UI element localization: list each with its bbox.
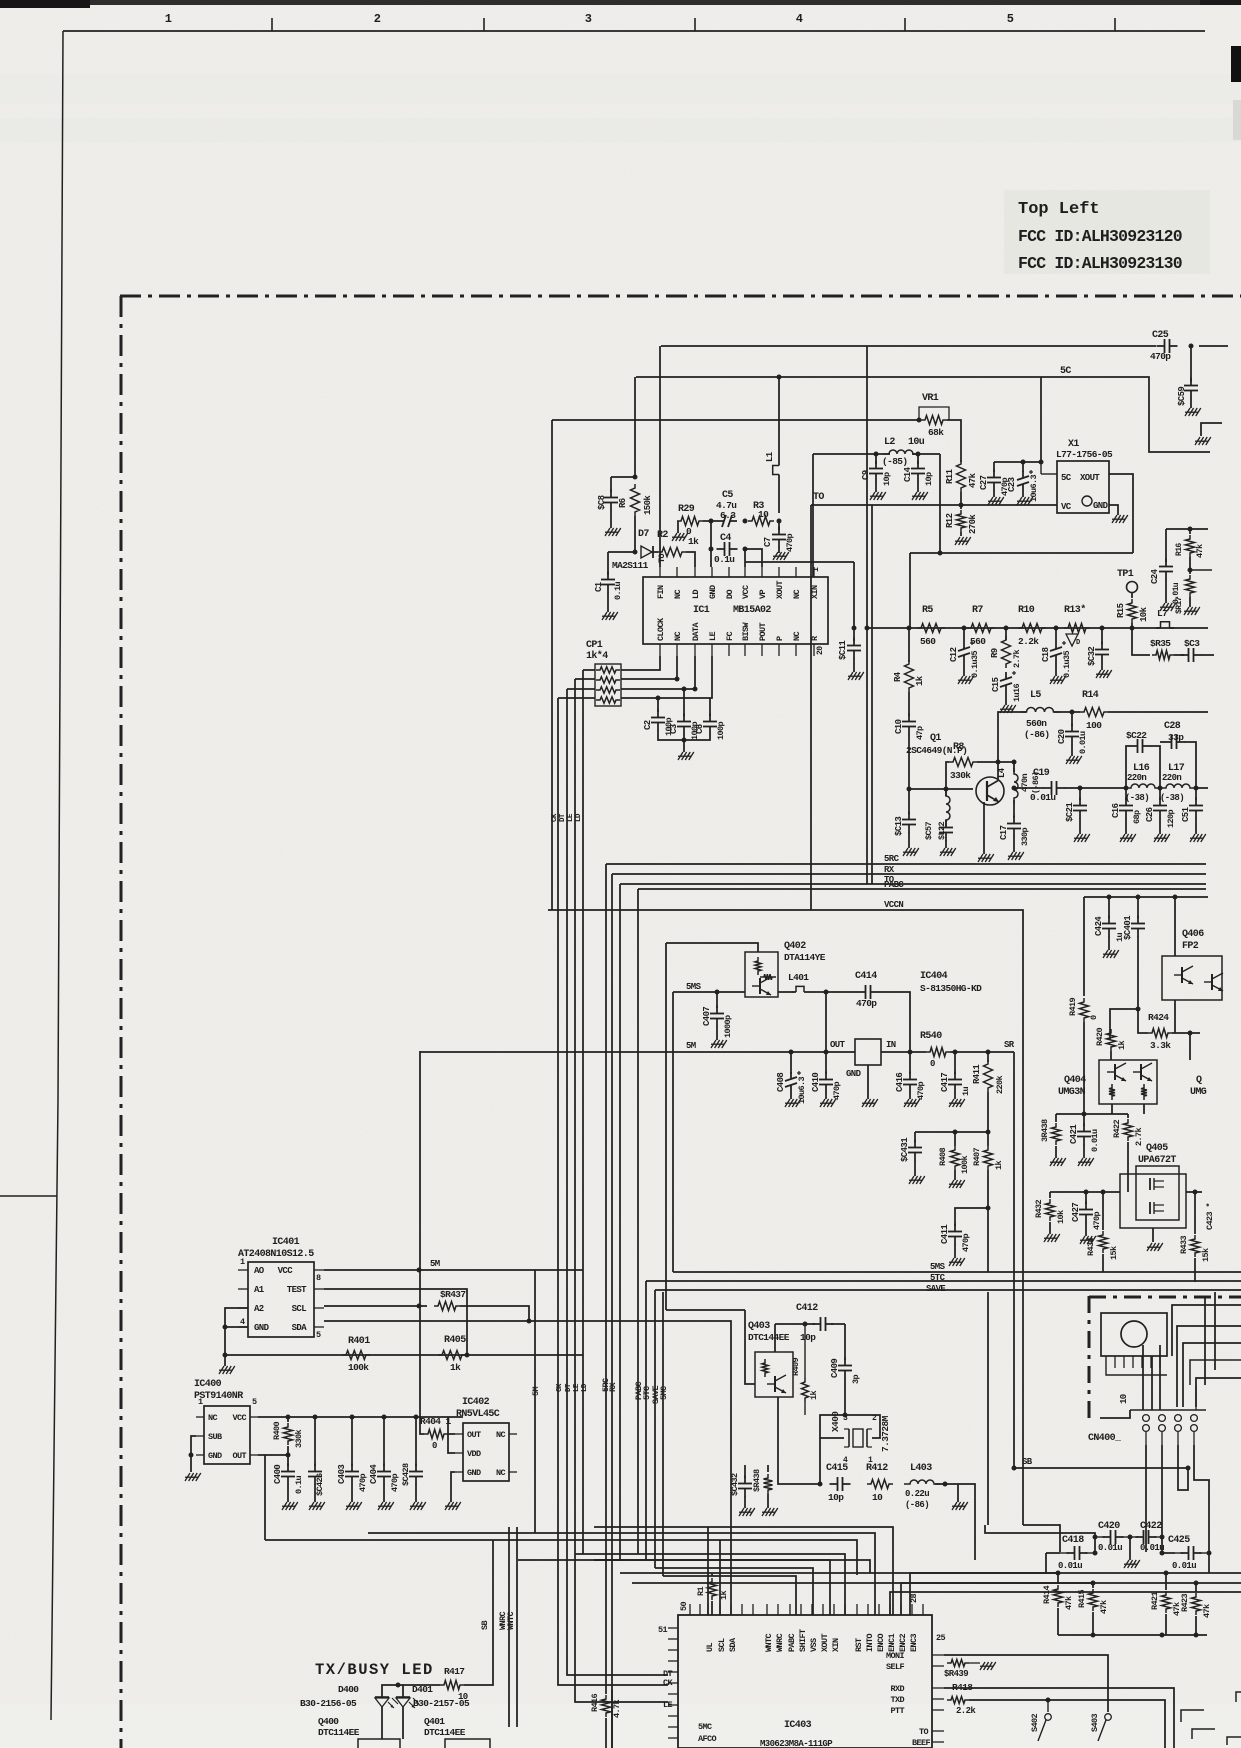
Q403 transistor (774, 1376, 776, 1392)
resistor R423 (1195, 1583, 1197, 1592)
svg-text:NC: NC (673, 589, 683, 599)
svg-text:470p: 470p (1150, 351, 1171, 362)
junction C5 right (743, 519, 748, 524)
svg-text:DTC114EE: DTC114EE (424, 1727, 466, 1738)
ground C424 (1108, 936, 1110, 950)
wire Q406 in (1174, 897, 1176, 956)
svg-text:10: 10 (1119, 1394, 1129, 1404)
regulator IC404 box (855, 1039, 881, 1065)
svg-text:C7: C7 (763, 537, 773, 547)
inductor L403 (904, 1480, 940, 1484)
svg-text:2: 2 (374, 12, 381, 26)
wire R423 down (1195, 1616, 1197, 1635)
svg-text:R405: R405 (444, 1335, 466, 1346)
junction R3 right (777, 519, 782, 524)
svg-text:DO: DO (725, 589, 735, 599)
capacitor C1 (607, 572, 609, 580)
svg-text:C28: C28 (1164, 721, 1181, 732)
ground C404 (383, 1484, 385, 1502)
resistor R407 (987, 1132, 989, 1146)
bus 5RC (606, 863, 1206, 865)
wire R424 left (1138, 1022, 1148, 1033)
svg-text:560n: 560n (1026, 718, 1047, 729)
wire R35 branch (1132, 628, 1150, 655)
capacitor C22 (1126, 746, 1130, 788)
svg-text:C4: C4 (720, 533, 731, 544)
svg-text:UMG3N: UMG3N (1058, 1087, 1086, 1098)
junction IC400 gnd (189, 1453, 194, 1458)
transistor block Q404 (1099, 1060, 1157, 1104)
resistor R29 (677, 517, 703, 526)
svg-text:0.01u: 0.01u (1058, 1561, 1082, 1571)
junction L403 (943, 1482, 948, 1487)
capacitor C2 (657, 710, 659, 718)
wire C8 branch (611, 476, 635, 478)
wire enc steps3 (890, 1592, 1241, 1615)
svg-text:AO: AO (254, 1266, 265, 1276)
svg-text:IN: IN (886, 1040, 896, 1050)
wire q406 to r420 (1110, 1009, 1138, 1040)
svg-text:FIN: FIN (656, 585, 666, 599)
ground C417 (954, 1092, 956, 1099)
svg-text:S402: S402 (1030, 1713, 1040, 1732)
wire GND pin (225, 1326, 248, 1328)
IC1 pin R (813, 644, 815, 656)
junction 1192 c (1193, 1190, 1198, 1195)
junction bottom rail (223, 1353, 228, 1358)
ground C9 (875, 481, 877, 492)
capacitor C421 (1083, 1114, 1085, 1126)
svg-text:5C: 5C (1061, 473, 1072, 483)
wire R415 down (1092, 1612, 1094, 1635)
capacitor C432 (744, 1465, 746, 1478)
svg-text:BEEF: BEEF (912, 1738, 931, 1748)
test point TP1 (1127, 582, 1138, 593)
ground C420 (1124, 1560, 1129, 1568)
junction L22 (944, 787, 949, 792)
wire R1 down (711, 1601, 713, 1615)
CN400 pin 3b (1175, 1425, 1182, 1432)
svg-text:NC: NC (792, 631, 802, 641)
svg-text:FCC ID:ALH30923130: FCC ID:ALH30923130 (1018, 254, 1182, 273)
ground R438b (767, 1494, 769, 1508)
svg-text:1: 1 (240, 1257, 245, 1267)
junction rail left (865, 626, 870, 631)
svg-text:R424: R424 (1148, 1012, 1169, 1023)
svg-text:NC: NC (208, 1413, 218, 1423)
junction X400 top (843, 1413, 848, 1418)
resistor R405 (438, 1351, 466, 1360)
wire R8 right (977, 761, 1014, 763)
svg-text:(-85): (-85) (882, 456, 908, 467)
wire R434 down (1102, 1254, 1104, 1272)
capacitor C415 (830, 1483, 838, 1485)
svg-text:LE: LE (573, 1383, 581, 1392)
junction c420 left (1093, 1535, 1098, 1540)
wire c418 drop (1094, 1537, 1096, 1553)
svg-text:SR: SR (1004, 1040, 1015, 1050)
wire weave g (1151, 1356, 1153, 1410)
svg-text:0.1u: 0.1u (294, 1475, 304, 1494)
Q402 resistor (755, 957, 761, 975)
svg-text:INTO: INTO (865, 1633, 875, 1652)
ruler tick (904, 18, 906, 31)
bus CK (558, 698, 668, 1685)
IC403 pin SDA (730, 1604, 732, 1615)
wire R422 down (1127, 1142, 1129, 1192)
svg-text:C1: C1 (594, 581, 604, 592)
junction rail C404 (382, 1415, 387, 1420)
wire L2 rail (813, 453, 890, 455)
junction R437 (527, 1319, 532, 1324)
junction R6 C8 (633, 475, 638, 480)
CP1 resistor 4 (596, 697, 620, 703)
wire SCL (324, 1305, 427, 1307)
svg-text:5MC: 5MC (698, 1722, 712, 1732)
capacitor C428 (415, 1417, 417, 1466)
Q404 transistor b (1140, 1064, 1142, 1080)
wire C28 right (1184, 742, 1196, 788)
wire cn drop d (1194, 1445, 1209, 1552)
eeprom IC401 box (248, 1262, 314, 1337)
wire Q1 emitter (983, 802, 985, 854)
svg-text:A1: A1 (254, 1285, 265, 1295)
svg-text:0.01u: 0.01u (1098, 1543, 1122, 1553)
svg-text:Q401: Q401 (424, 1716, 445, 1727)
ground C59 (1190, 398, 1192, 408)
wire 5C rail (636, 377, 1210, 452)
Q406 transistor a (1181, 967, 1183, 983)
svg-text:TX/BUSY LED: TX/BUSY LED (315, 1661, 434, 1679)
svg-text:CK: CK (663, 1678, 674, 1688)
capacitor C12 (963, 642, 965, 649)
wire drop scl (719, 1540, 721, 1615)
Q405 fet a (1149, 1178, 1151, 1190)
ground R17 (1189, 597, 1191, 607)
ground C23 (1022, 491, 1024, 497)
wire CP1 lead 1 (583, 669, 595, 671)
svg-text:8: 8 (316, 1273, 321, 1283)
junction LE (693, 687, 698, 692)
wire Q404 out left (1111, 1104, 1113, 1114)
wire weave a (1172, 1305, 1241, 1356)
svg-text:R2: R2 (657, 530, 668, 541)
svg-text:RXD: RXD (890, 1684, 904, 1694)
svg-text:IC401: IC401 (272, 1237, 300, 1248)
junction IN (908, 1050, 913, 1055)
scan band 1 (0, 74, 1241, 104)
junction rail C400 (286, 1415, 291, 1420)
junction X1 top (1039, 460, 1044, 465)
svg-text:10: 10 (872, 1492, 883, 1503)
IC1 pin FC (728, 644, 730, 656)
svg-text:1: 1 (198, 1397, 203, 1407)
wire R404 to OUT (448, 1433, 455, 1435)
capacitor C17 (1013, 800, 1015, 818)
svg-text:330k: 330k (294, 1429, 304, 1448)
svg-text:GND: GND (846, 1069, 862, 1079)
svg-text:(-86): (-86) (905, 1500, 929, 1510)
svg-text:NC: NC (792, 589, 802, 599)
svg-text:1k*4: 1k*4 (586, 650, 608, 662)
svg-text:D: D (1076, 639, 1080, 647)
svg-text:GND: GND (208, 1451, 222, 1461)
mcu IC403 box (678, 1615, 932, 1748)
junction C4 right (743, 547, 748, 552)
inductor L2 (883, 450, 919, 454)
svg-text:S403: S403 (1090, 1713, 1100, 1732)
svg-text:0: 0 (1089, 1015, 1099, 1020)
svg-text:R8: R8 (953, 742, 964, 753)
IC403 pin stub (844, 1604, 846, 1615)
svg-text:5C: 5C (1060, 366, 1071, 377)
svg-text:OUT: OUT (467, 1430, 481, 1440)
CN400 pin 1a (1143, 1415, 1150, 1422)
svg-text:IC400: IC400 (194, 1379, 222, 1390)
svg-text:$C428: $C428 (401, 1463, 411, 1486)
wire R421 down (1165, 1614, 1167, 1635)
svg-text:WNRC: WNRC (775, 1633, 785, 1652)
wire XIN feed (812, 454, 814, 577)
wire R424 drop (1189, 1033, 1191, 1060)
bus TO (620, 883, 1206, 885)
resistor R420 (1107, 1029, 1116, 1051)
wire q402 frame (666, 943, 758, 952)
svg-text:47k: 47k (968, 472, 978, 488)
IC1 pin NC (795, 567, 797, 577)
svg-text:LD: LD (575, 813, 583, 822)
junction 1114 (1082, 1112, 1087, 1117)
wire R417 right (464, 1540, 493, 1685)
junction C25 (1189, 344, 1194, 349)
capacitor C18 (1055, 642, 1057, 649)
svg-text:LE: LE (663, 1700, 673, 1710)
svg-text:10u6.3: 10u6.3 (1029, 474, 1039, 502)
svg-text:SB: SB (1022, 1457, 1033, 1467)
svg-text:10: 10 (758, 509, 769, 520)
svg-text:L5: L5 (1030, 690, 1041, 701)
wire 1573 full (620, 1572, 1058, 1574)
junction SB (1012, 1466, 1017, 1471)
svg-text:$C59: $C59 (1177, 387, 1187, 406)
wire 5M rail (420, 1051, 855, 1053)
ground C432 (744, 1496, 746, 1508)
wire R414 down (1057, 1608, 1059, 1635)
svg-text:0.1u35: 0.1u35 (1062, 650, 1072, 678)
left margin line (51, 31, 63, 1720)
wire q402 frame drop (665, 943, 667, 1310)
ground L403 (952, 1502, 957, 1510)
svg-text:0.01u: 0.01u (1078, 731, 1088, 754)
resistor R16 (1189, 529, 1191, 534)
svg-text:RN5VL45C: RN5VL45C (456, 1409, 500, 1420)
svg-text:51: 51 (658, 1625, 668, 1635)
wire weave row 1535 (535, 1533, 875, 1615)
svg-text:1k: 1k (809, 1390, 819, 1400)
IC1 pin NC (676, 567, 678, 577)
svg-text:10u: 10u (908, 437, 925, 448)
svg-text:LE: LE (708, 631, 718, 641)
capacitor C59 (1190, 378, 1192, 386)
junction S402 top (1046, 1698, 1051, 1703)
wire c418 left (1046, 1552, 1060, 1554)
svg-text:6.3: 6.3 (720, 510, 736, 521)
capacitor C20 (1071, 712, 1073, 726)
wire R407 down (987, 1170, 989, 1272)
svg-text:R408: R408 (938, 1147, 948, 1166)
svg-text:(-86): (-86) (1024, 729, 1050, 740)
svg-text:M30623M8A-111GP: M30623M8A-111GP (760, 1739, 833, 1748)
wire R11 down (960, 492, 962, 505)
left margin tick (0, 1195, 57, 1197)
svg-text:3: 3 (585, 12, 592, 26)
svg-text:R415: R415 (1077, 1589, 1087, 1608)
wire PTT right (969, 1700, 1165, 1748)
capacitor C426 (314, 1417, 316, 1466)
junction R16 R17 (1188, 568, 1193, 573)
wire L5 to R14 (1054, 711, 1080, 713)
svg-text:5MS: 5MS (930, 1262, 946, 1272)
wire weave h (1159, 1345, 1161, 1410)
svg-text:SDA: SDA (728, 1637, 738, 1652)
svg-text:470p: 470p (832, 1081, 842, 1100)
wire sr feed (958, 1484, 975, 1560)
capacitor C51 (1195, 788, 1197, 800)
svg-text:R29: R29 (678, 504, 695, 515)
ground C13 (908, 832, 910, 848)
wire GND pin vert (710, 521, 712, 567)
wire Q403 base left (745, 1310, 755, 1384)
ground C427 (1085, 1222, 1087, 1236)
wire VDD (448, 1417, 455, 1453)
junction c420 right (1128, 1535, 1133, 1540)
svg-text:R12: R12 (945, 513, 955, 528)
junction rail C428 (414, 1415, 419, 1420)
svg-text:XOUT: XOUT (775, 580, 785, 599)
resistor R415 (1092, 1583, 1094, 1588)
ground C428 (415, 1484, 417, 1502)
IC403 pin SHIFT (800, 1604, 802, 1615)
capacitor C3 (683, 689, 685, 716)
capacitor C407 (716, 992, 718, 1008)
wire weave b (1177, 1326, 1241, 1407)
ground C11 (853, 658, 855, 672)
wire cn stub left (1100, 1410, 1130, 1418)
wire base rail (909, 788, 973, 790)
svg-text:5M: 5M (531, 1386, 541, 1396)
svg-text:SHIFT: SHIFT (798, 1629, 808, 1652)
svg-text:0: 0 (686, 526, 692, 537)
wire R29 to C5 (703, 520, 717, 522)
svg-text:7.3728M: 7.3728M (880, 1415, 891, 1452)
svg-text:CK: CK (551, 813, 559, 822)
IC403 left pin stub (668, 1715, 678, 1717)
wire wnrc v (508, 1527, 510, 1727)
junction R9 (1004, 626, 1009, 631)
svg-text:$C426: $C426 (315, 1473, 325, 1496)
wire R411 down (987, 1092, 989, 1132)
resistor R401 (342, 1351, 370, 1360)
svg-text:C20: C20 (1057, 729, 1067, 744)
svg-text:5M: 5M (430, 1259, 440, 1269)
wire VCCN (548, 910, 1023, 1525)
svg-text:0: 0 (930, 1059, 935, 1069)
svg-text:1u16: 1u16 (1012, 683, 1022, 702)
svg-text:220n: 220n (1162, 773, 1181, 783)
CN400 pin 2b (1159, 1425, 1166, 1432)
capacitor C9 (875, 454, 877, 464)
ground C426 (314, 1484, 316, 1502)
svg-text:C27: C27 (979, 475, 989, 490)
svg-text:LE: LE (567, 813, 575, 822)
svg-text:Q1: Q1 (930, 733, 941, 744)
wire weave c (1183, 1343, 1241, 1407)
svg-text:270k: 270k (968, 514, 978, 534)
svg-text:DTC144EE: DTC144EE (748, 1332, 790, 1343)
svg-text:0.1u: 0.1u (714, 554, 735, 565)
svg-text:Q405: Q405 (1146, 1143, 1168, 1154)
wire SDA (324, 1320, 528, 1322)
wire CP1 lead 2 (575, 678, 595, 680)
svg-text:R423: R423 (1180, 1593, 1190, 1612)
svg-text:1k: 1k (450, 1362, 461, 1373)
wire drop sda (528, 1321, 731, 1615)
wire R437 right (460, 1306, 529, 1321)
IC403 pin stub (752, 1604, 754, 1615)
wire C1 branch (608, 551, 635, 553)
wire R416 down (605, 1718, 607, 1748)
svg-text:3R438: 3R438 (1040, 1119, 1050, 1142)
bus LE (575, 679, 668, 1702)
resistor R6 (631, 484, 640, 516)
resistor R414 (1057, 1573, 1059, 1584)
wire R2 to LD (686, 552, 695, 567)
capacitor C414 (858, 991, 866, 993)
wire CP1 out 3 (621, 656, 695, 689)
wire C22 right (1150, 746, 1160, 788)
svg-text:2.2k: 2.2k (1018, 636, 1039, 647)
svg-text:A2: A2 (254, 1304, 264, 1314)
svg-text:470n: 470n (1020, 773, 1030, 792)
ground C24 (1165, 579, 1167, 603)
transistor Q1 (976, 777, 1004, 805)
svg-text:C418: C418 (1062, 1535, 1084, 1546)
wire R15 down (1131, 623, 1133, 628)
svg-text:$C431: $C431 (900, 1137, 910, 1162)
junction Q1 base (907, 787, 912, 792)
resistor R417 (440, 1681, 464, 1690)
svg-text:C19: C19 (1033, 768, 1050, 779)
svg-text:470p: 470p (1092, 1211, 1102, 1230)
switch S402 (1047, 1700, 1049, 1712)
svg-text:DT: DT (565, 1383, 573, 1392)
svg-text:P: P (775, 636, 785, 641)
wire xin row (745, 561, 854, 563)
svg-text:1k: 1k (994, 1160, 1004, 1170)
wire top rail right (1199, 345, 1228, 347)
svg-text:CP1: CP1 (586, 640, 603, 651)
resistor R432 (1049, 1192, 1051, 1198)
svg-text:MONI: MONI (886, 1651, 905, 1661)
svg-text:10p: 10p (800, 1332, 816, 1343)
IC1 pin LE (711, 644, 713, 656)
svg-text:68k: 68k (928, 427, 944, 438)
capacitor C4 (717, 548, 725, 550)
IC1 pin POUT (761, 644, 763, 656)
IC1 pin BISW (744, 644, 746, 656)
svg-text:1000p: 1000p (723, 1015, 733, 1038)
svg-text:C2: C2 (643, 720, 653, 730)
